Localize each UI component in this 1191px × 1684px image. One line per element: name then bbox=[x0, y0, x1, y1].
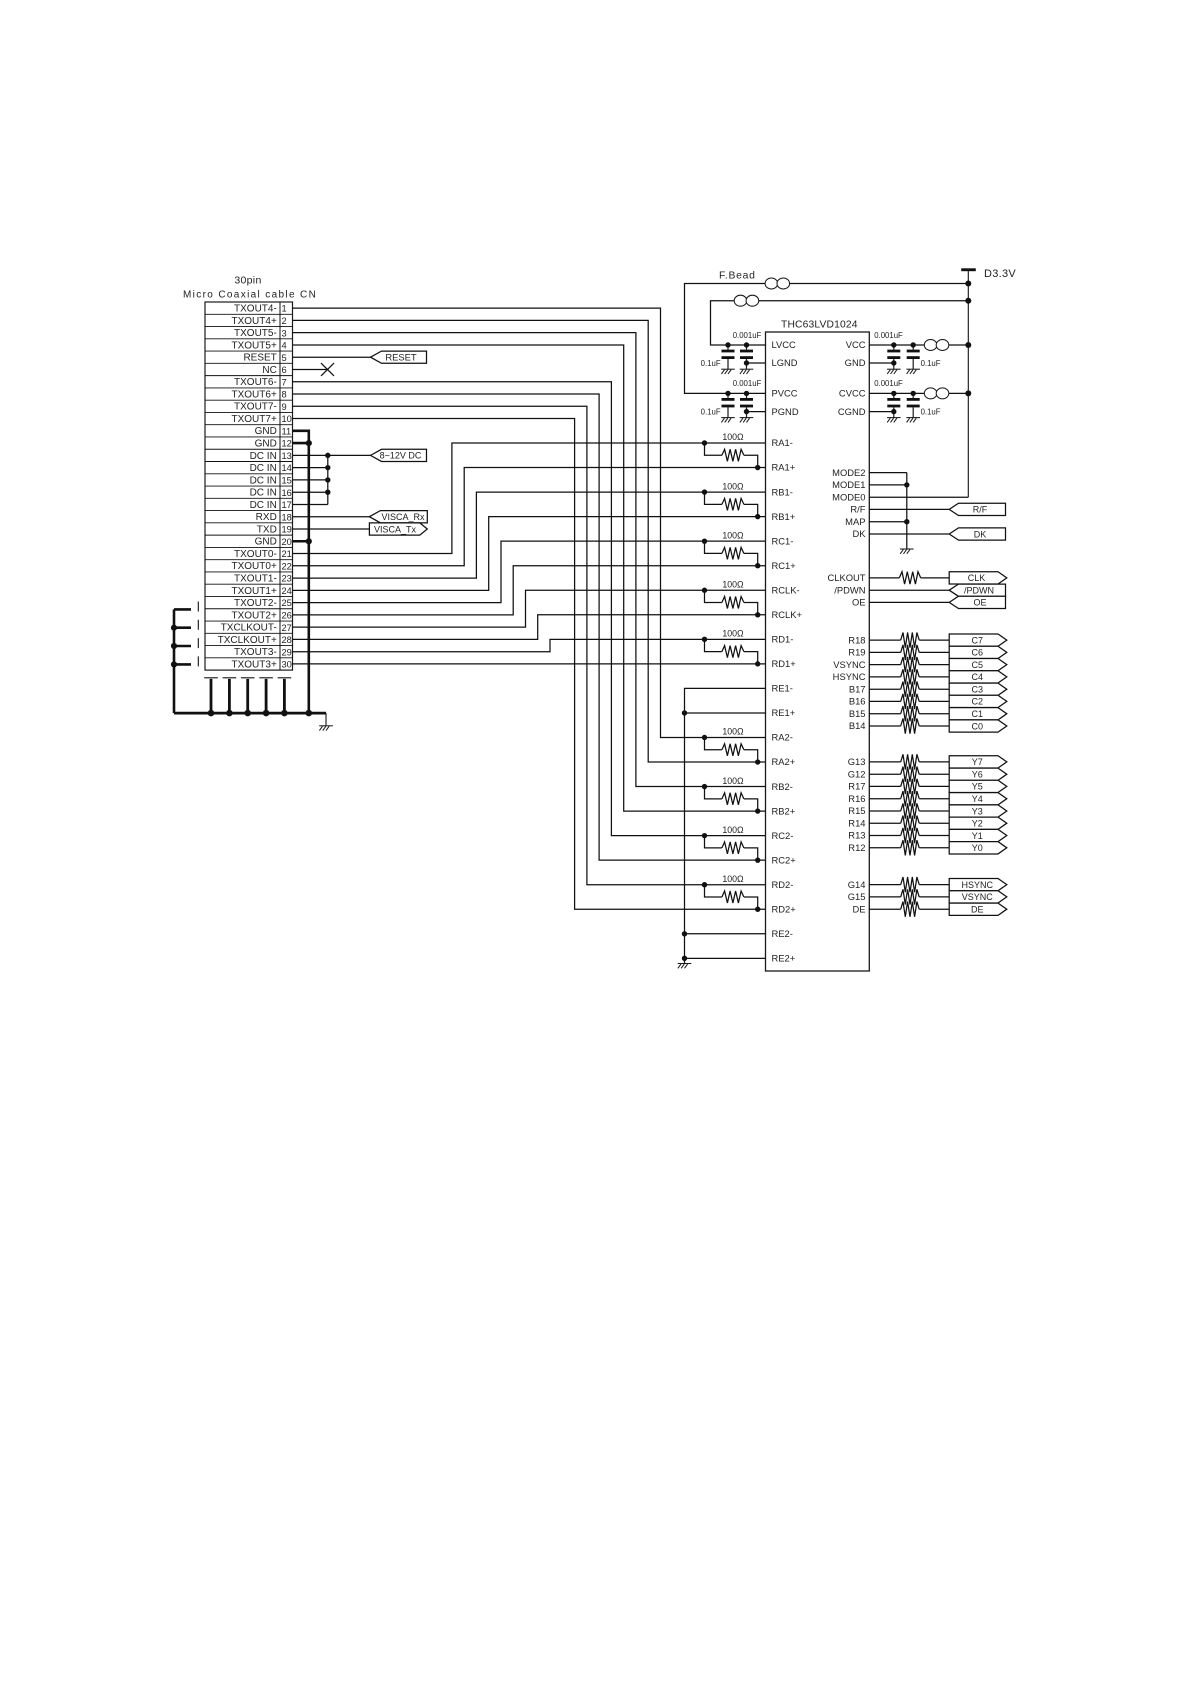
svg-text:C1: C1 bbox=[972, 709, 984, 719]
resistor 100ohm across RC1 pair bbox=[705, 541, 758, 566]
junction RA1+ bbox=[755, 465, 760, 470]
pin label G14 bbox=[848, 879, 866, 890]
junction shield stub bbox=[171, 643, 177, 649]
pin label VSYNC bbox=[833, 659, 866, 670]
wire R19 to resistor bbox=[869, 651, 900, 653]
svg-text:2: 2 bbox=[282, 316, 287, 326]
net flag 8~12V DC bbox=[371, 449, 427, 461]
net flag C4 bbox=[949, 671, 1007, 683]
inductor FB2 bbox=[734, 295, 759, 306]
svg-text:TXOUT5-: TXOUT5- bbox=[234, 328, 277, 339]
pin label MODE1 bbox=[832, 479, 865, 490]
svg-text:Y6: Y6 bbox=[972, 770, 983, 780]
resistor 100ohm across RD2 pair bbox=[705, 885, 758, 910]
svg-text:R12: R12 bbox=[848, 842, 865, 853]
junction RCLK+ bbox=[755, 612, 760, 617]
wire FB2 feed to LVCC bbox=[711, 301, 969, 345]
junction shield drain at bus bbox=[263, 710, 270, 717]
svg-text:15: 15 bbox=[282, 476, 292, 486]
wire shield drain under connector bbox=[223, 678, 237, 713]
svg-text:THC63LVD1024: THC63LVD1024 bbox=[781, 320, 858, 331]
svg-text:R16: R16 bbox=[848, 793, 865, 804]
svg-text:5: 5 bbox=[282, 353, 287, 363]
net flag /PDWN bbox=[949, 584, 1005, 596]
junction DC IN pin13 bbox=[325, 453, 330, 458]
net flag RESET bbox=[371, 351, 427, 363]
net flag VISCA_Rx bbox=[369, 511, 427, 523]
pin label RE2- bbox=[772, 928, 793, 939]
svg-text:TXOUT0-: TXOUT0- bbox=[234, 549, 277, 560]
pin label HSYNC bbox=[833, 671, 866, 682]
svg-text:CLKOUT: CLKOUT bbox=[827, 572, 865, 583]
svg-text:RD2-: RD2- bbox=[772, 879, 794, 890]
svg-text:R13: R13 bbox=[848, 830, 865, 841]
svg-text:G12: G12 bbox=[848, 768, 866, 779]
svg-text:8: 8 bbox=[282, 390, 287, 400]
pin label PVCC bbox=[772, 388, 798, 399]
resistor series R17 bbox=[901, 779, 920, 794]
wire CGND to cap bbox=[869, 411, 894, 413]
wire resistor to flag C7 bbox=[919, 639, 949, 641]
pin label R/F bbox=[850, 504, 865, 515]
svg-text:PVCC: PVCC bbox=[772, 388, 798, 399]
wire resistor to flag Y0 bbox=[919, 847, 949, 849]
net flag DE bbox=[949, 903, 1007, 915]
svg-text:8~12V DC: 8~12V DC bbox=[380, 451, 422, 461]
capacitor 0.1uF at LVCC bbox=[722, 345, 735, 369]
wire pin7 TXOUT6- to RC2- bbox=[293, 382, 766, 836]
label 100ohm RC1 bbox=[722, 530, 744, 540]
wire R14 to resistor bbox=[869, 822, 900, 824]
wire resistor to flag DE bbox=[919, 908, 949, 910]
wire resistor to CLK flag bbox=[921, 577, 950, 579]
svg-text:R14: R14 bbox=[848, 817, 865, 828]
svg-text:G15: G15 bbox=[848, 891, 866, 902]
resistor series R13 bbox=[901, 828, 920, 843]
junction RA2- bbox=[702, 735, 707, 740]
svg-text:TXOUT1-: TXOUT1- bbox=[234, 573, 277, 584]
wire resistor to flag Y3 bbox=[919, 810, 949, 812]
svg-text:GND: GND bbox=[255, 537, 277, 548]
svg-text:27: 27 bbox=[282, 623, 292, 633]
svg-text:TXOUT4+: TXOUT4+ bbox=[232, 316, 277, 327]
ground (0.1uF CVCC) bbox=[906, 418, 920, 423]
wire MODE2/MODE1/MAP to ground bbox=[869, 473, 907, 549]
svg-text:C4: C4 bbox=[972, 672, 984, 682]
wire CLKOUT through resistor bbox=[869, 577, 899, 579]
pin label LVCC bbox=[772, 339, 797, 350]
pin label R17 bbox=[848, 781, 865, 792]
pin label LGND bbox=[772, 357, 798, 368]
inductor FB1 (F.Bead) bbox=[765, 278, 789, 289]
label F.Bead bbox=[719, 271, 756, 282]
net flag Y3 bbox=[949, 805, 1007, 817]
junction MAP bbox=[904, 519, 909, 524]
power D3.3V bbox=[961, 268, 1016, 280]
svg-text:R19: R19 bbox=[848, 647, 865, 658]
pin label RB1+ bbox=[772, 511, 796, 522]
resistor series R16 bbox=[901, 791, 920, 806]
wire R18 to resistor bbox=[869, 639, 900, 641]
wire HSYNC to resistor bbox=[869, 676, 900, 678]
pin label RE1- bbox=[772, 683, 793, 694]
svg-text:22: 22 bbox=[282, 561, 292, 571]
wire pin9 TXOUT7- to RD2- bbox=[293, 406, 766, 884]
pin label RC2+ bbox=[772, 854, 797, 865]
resistor series R15 bbox=[901, 803, 920, 818]
resistor series B16 bbox=[901, 694, 920, 709]
svg-text:RB2+: RB2+ bbox=[772, 805, 796, 816]
svg-text:RA1+: RA1+ bbox=[772, 462, 796, 473]
svg-text:C2: C2 bbox=[972, 697, 984, 707]
svg-text:RB1+: RB1+ bbox=[772, 511, 796, 522]
svg-text:DC IN: DC IN bbox=[250, 488, 277, 499]
junction rail FB2 bbox=[965, 298, 971, 304]
junction RE net bbox=[682, 710, 687, 715]
junction MODE1 bbox=[904, 482, 909, 487]
pin label CLKOUT bbox=[827, 572, 865, 583]
pin label PGND bbox=[772, 406, 799, 417]
svg-text:R17: R17 bbox=[848, 781, 865, 792]
junction RD1- bbox=[702, 637, 707, 642]
net flag Y0 bbox=[949, 842, 1007, 854]
svg-text:VSYNC: VSYNC bbox=[833, 659, 866, 670]
pin label G15 bbox=[848, 891, 866, 902]
junction shield drain at bus bbox=[244, 710, 251, 717]
wire R17 to resistor bbox=[869, 785, 900, 787]
svg-text:Y2: Y2 bbox=[972, 819, 983, 829]
svg-text:CVCC: CVCC bbox=[839, 388, 866, 399]
svg-text:Y0: Y0 bbox=[972, 843, 983, 853]
wire resistor to flag C6 bbox=[919, 651, 949, 653]
net flag VSYNC bbox=[949, 891, 1007, 903]
svg-text:DK: DK bbox=[974, 529, 987, 539]
resistor series G14 bbox=[901, 877, 920, 892]
pin label RE2+ bbox=[772, 953, 796, 964]
no-connect cross pin6 bbox=[321, 363, 334, 376]
pin label RD1- bbox=[772, 634, 794, 645]
svg-text:13: 13 bbox=[282, 451, 292, 461]
junction GND pin12 bbox=[306, 440, 312, 446]
wire resistor to flag Y5 bbox=[919, 785, 949, 787]
ground (0.1uF PVCC) bbox=[721, 418, 735, 423]
wire G15 to resistor bbox=[869, 896, 900, 898]
svg-text:GND: GND bbox=[845, 357, 866, 368]
svg-text:TXOUT3-: TXOUT3- bbox=[234, 647, 277, 658]
wire R/F bbox=[869, 508, 949, 510]
svg-text:RESET: RESET bbox=[243, 353, 276, 364]
svg-text:Y3: Y3 bbox=[972, 806, 983, 816]
capacitor 0.001uF at PVCC bbox=[740, 393, 753, 417]
svg-text:MAP: MAP bbox=[845, 516, 865, 527]
pin label GND bbox=[845, 357, 866, 368]
connector CN1 30pin Micro Coaxial cable bbox=[205, 302, 293, 670]
svg-text:Y7: Y7 bbox=[972, 757, 983, 767]
wire R15 to resistor bbox=[869, 810, 900, 812]
wire DK bbox=[869, 533, 949, 535]
svg-text:16: 16 bbox=[282, 488, 292, 498]
svg-text:Y4: Y4 bbox=[972, 794, 983, 804]
label 100ohm RC2 bbox=[722, 825, 744, 835]
net flag C5 bbox=[949, 658, 1007, 670]
pin label MODE2 bbox=[832, 467, 865, 478]
svg-text:12: 12 bbox=[282, 439, 292, 449]
wire pin6 NC bbox=[293, 368, 328, 370]
capacitor 0.1uF at CVCC bbox=[907, 393, 920, 417]
pin label RE1+ bbox=[772, 707, 796, 718]
svg-text:RE1+: RE1+ bbox=[772, 707, 796, 718]
wire resistor to flag C0 bbox=[919, 725, 949, 727]
junction rail FB1 bbox=[965, 281, 971, 287]
junction RA2+ bbox=[755, 759, 760, 764]
wire pin19 TXD bbox=[293, 528, 370, 530]
wire ground bus below connector bbox=[174, 712, 326, 715]
junction shield drain at bus bbox=[226, 710, 233, 717]
svg-text:28: 28 bbox=[282, 635, 292, 645]
pin label R18 bbox=[848, 634, 865, 645]
ground (connector shield bus) bbox=[319, 726, 333, 731]
net flag CLK bbox=[949, 572, 1007, 584]
svg-text:RB1-: RB1- bbox=[772, 486, 793, 497]
svg-text:3: 3 bbox=[282, 328, 287, 338]
svg-text:DC IN: DC IN bbox=[250, 475, 277, 486]
ground (0.1uF LVCC) bbox=[721, 369, 735, 374]
svg-text:RD2+: RD2+ bbox=[772, 903, 797, 914]
svg-text:RA2+: RA2+ bbox=[772, 756, 796, 767]
junction shield drain at bus bbox=[208, 710, 215, 717]
svg-text:0.001uF: 0.001uF bbox=[874, 331, 903, 340]
svg-text:RD1+: RD1+ bbox=[772, 658, 797, 669]
svg-text:MODE1: MODE1 bbox=[832, 479, 865, 490]
wire R12 to resistor bbox=[869, 847, 900, 849]
wire pin10 TXOUT7+ to RD2+ bbox=[293, 419, 766, 910]
svg-text:DE: DE bbox=[971, 905, 984, 915]
wire GND net pins 11,12,20 thick bus bbox=[293, 431, 309, 713]
resistor series G12 bbox=[901, 767, 920, 782]
ground (0.001uF VCC) bbox=[887, 369, 901, 374]
label 0.1uF VCC bbox=[921, 359, 941, 368]
svg-text:26: 26 bbox=[282, 610, 292, 620]
net flag VISCA_Tx bbox=[369, 523, 427, 535]
label 0.001uF VCC bbox=[874, 331, 903, 340]
svg-text:RB2-: RB2- bbox=[772, 781, 793, 792]
junction RCLK- bbox=[702, 588, 707, 593]
svg-text:B14: B14 bbox=[849, 720, 866, 731]
svg-text:TXD: TXD bbox=[257, 524, 277, 535]
svg-text:/PDWN: /PDWN bbox=[964, 586, 994, 596]
label 100ohm RD2 bbox=[722, 874, 744, 884]
svg-text:TXOUT7-: TXOUT7- bbox=[234, 402, 277, 413]
svg-text:19: 19 bbox=[282, 525, 292, 535]
svg-text:D3.3V: D3.3V bbox=[984, 268, 1016, 280]
svg-text:C6: C6 bbox=[972, 648, 984, 658]
label 100ohm RB1 bbox=[722, 481, 744, 491]
resistor series G13 bbox=[901, 754, 920, 769]
wire shield drain under connector bbox=[278, 678, 292, 713]
svg-text:LVCC: LVCC bbox=[772, 339, 797, 350]
resistor series VSYNC bbox=[901, 657, 920, 672]
svg-text:24: 24 bbox=[282, 586, 292, 596]
pin label G13 bbox=[848, 756, 866, 767]
resistor series CLK bbox=[899, 572, 920, 584]
svg-text:GND: GND bbox=[255, 426, 277, 437]
svg-text:TXOUT3+: TXOUT3+ bbox=[232, 659, 277, 670]
junction RE net bbox=[682, 956, 687, 961]
svg-text:VCC: VCC bbox=[846, 339, 866, 350]
wire CVCC to rail bbox=[869, 392, 968, 394]
svg-text:MODE0: MODE0 bbox=[832, 491, 865, 502]
svg-text:100Ω: 100Ω bbox=[722, 776, 744, 786]
wire resistor to flag C3 bbox=[919, 688, 949, 690]
wire pin3 TXOUT5- to RB2- bbox=[293, 333, 766, 787]
svg-text:100Ω: 100Ω bbox=[722, 825, 744, 835]
svg-text:TXCLKOUT+: TXCLKOUT+ bbox=[218, 635, 277, 646]
svg-text:B16: B16 bbox=[849, 696, 866, 707]
pin label CVCC bbox=[839, 388, 866, 399]
junction GND tee bbox=[891, 360, 896, 365]
wire resistor to flag Y2 bbox=[919, 822, 949, 824]
svg-text:TXOUT2-: TXOUT2- bbox=[234, 598, 277, 609]
capacitor 0.001uF at LVCC bbox=[740, 345, 753, 369]
capacitor 0.1uF at PVCC bbox=[722, 393, 735, 417]
junction shield stub bbox=[171, 625, 177, 631]
pin label MAP bbox=[845, 516, 865, 527]
net flag R/F bbox=[949, 503, 1005, 515]
svg-text:25: 25 bbox=[282, 598, 292, 608]
svg-text:B17: B17 bbox=[849, 683, 866, 694]
junction RC2+ bbox=[755, 857, 760, 862]
svg-text:C3: C3 bbox=[972, 685, 984, 695]
wire LGND to cap bbox=[747, 362, 766, 364]
svg-text:6: 6 bbox=[282, 365, 287, 375]
net flag HSYNC bbox=[949, 878, 1007, 890]
pin label RD2+ bbox=[772, 903, 797, 914]
svg-text:0.1uF: 0.1uF bbox=[921, 408, 941, 417]
ground (0.1uF VCC) bbox=[906, 369, 920, 374]
wire DC IN pins 13-17 bbox=[293, 455, 371, 504]
junction LGND tee bbox=[744, 360, 749, 365]
junction DC IN pin15 bbox=[325, 477, 330, 482]
wire pin8 TXOUT6+ to RC2+ bbox=[293, 394, 766, 860]
wire pin26 TXOUT2+ to RC1+ bbox=[293, 566, 766, 615]
svg-text:100Ω: 100Ω bbox=[722, 874, 744, 884]
junction RB1- bbox=[702, 489, 707, 494]
wire resistor to flag C4 bbox=[919, 676, 949, 678]
svg-text:1: 1 bbox=[282, 304, 287, 314]
wire G13 to resistor bbox=[869, 761, 900, 763]
wire resistor to flag C1 bbox=[919, 713, 949, 715]
svg-text:MODE2: MODE2 bbox=[832, 467, 865, 478]
capacitor 0.001uF at VCC bbox=[887, 345, 900, 369]
wire pin25 TXOUT2- to RC1- bbox=[293, 541, 766, 602]
svg-text:100Ω: 100Ω bbox=[722, 629, 744, 639]
junction RB1+ bbox=[755, 514, 760, 519]
pin label RD2- bbox=[772, 879, 794, 890]
junction RD1+ bbox=[755, 661, 760, 666]
svg-text:RC1-: RC1- bbox=[772, 535, 794, 546]
svg-text:HSYNC: HSYNC bbox=[833, 671, 866, 682]
wire resistor to flag C2 bbox=[919, 700, 949, 702]
pin label R14 bbox=[848, 817, 865, 828]
svg-text:11: 11 bbox=[282, 426, 292, 436]
pin label RC1- bbox=[772, 535, 794, 546]
label 0.001uF LVCC bbox=[733, 331, 762, 340]
svg-text:100Ω: 100Ω bbox=[722, 530, 744, 540]
wire pin4 TXOUT5+ to RB2+ bbox=[293, 345, 766, 811]
net flag C7 bbox=[949, 634, 1007, 646]
svg-text:TXOUT1+: TXOUT1+ bbox=[232, 586, 277, 597]
svg-text:RC1+: RC1+ bbox=[772, 560, 797, 571]
wire F.Bead feed to PVCC bbox=[685, 284, 969, 394]
label 100ohm RD1 bbox=[722, 629, 744, 639]
junction RB2- bbox=[702, 784, 707, 789]
connector title 30pin bbox=[234, 275, 261, 287]
svg-text:0.1uF: 0.1uF bbox=[701, 408, 721, 417]
svg-text:/PDWN: /PDWN bbox=[834, 584, 865, 595]
svg-text:C5: C5 bbox=[972, 660, 984, 670]
svg-text:14: 14 bbox=[282, 463, 292, 473]
junction CGND tee bbox=[891, 409, 896, 414]
svg-text:TXOUT0+: TXOUT0+ bbox=[232, 561, 277, 572]
pin label RD1+ bbox=[772, 658, 797, 669]
pin label RB2+ bbox=[772, 805, 796, 816]
svg-text:LGND: LGND bbox=[772, 357, 798, 368]
svg-text:0.1uF: 0.1uF bbox=[701, 359, 721, 368]
svg-text:Y1: Y1 bbox=[972, 831, 983, 841]
pin label RA1+ bbox=[772, 462, 796, 473]
svg-text:RE2-: RE2- bbox=[772, 928, 793, 939]
svg-text:100Ω: 100Ω bbox=[722, 727, 744, 737]
net flag OE bbox=[949, 596, 1005, 608]
resistor series G15 bbox=[901, 889, 920, 904]
wire D3.3V rail vertical bbox=[967, 271, 969, 497]
svg-text:VSYNC: VSYNC bbox=[962, 892, 994, 902]
junction VCC caps bbox=[891, 342, 916, 347]
wire G12 to resistor bbox=[869, 773, 900, 775]
pin label OE bbox=[852, 597, 866, 608]
svg-text:DC IN: DC IN bbox=[250, 500, 277, 511]
junction shield drain at bus bbox=[281, 710, 288, 717]
svg-text:DC IN: DC IN bbox=[250, 451, 277, 462]
ground (0.001uF CVCC) bbox=[887, 418, 901, 423]
pin label B17 bbox=[849, 683, 866, 694]
svg-text:20: 20 bbox=[282, 537, 292, 547]
svg-text:RC2-: RC2- bbox=[772, 830, 794, 841]
svg-text:RXD: RXD bbox=[256, 512, 277, 523]
resistor series R19 bbox=[901, 645, 920, 660]
wire pin23 TXOUT1- to RB1- bbox=[293, 492, 766, 578]
label 100ohm RCLK bbox=[722, 579, 744, 589]
net flag Y5 bbox=[949, 780, 1007, 792]
svg-text:TXOUT4-: TXOUT4- bbox=[234, 304, 277, 315]
wire resistor to flag HSYNC bbox=[919, 884, 949, 886]
wire pin2 TXOUT4+ to RA2+ bbox=[293, 320, 766, 762]
svg-text:F.Bead: F.Bead bbox=[719, 271, 756, 282]
net flag Y2 bbox=[949, 817, 1007, 829]
net flag C6 bbox=[949, 646, 1007, 658]
wire pin18 RXD bbox=[293, 516, 370, 518]
svg-text:RA1-: RA1- bbox=[772, 437, 793, 448]
wire shield drain under connector bbox=[204, 678, 218, 713]
pin label DK bbox=[852, 528, 866, 539]
label 0.1uF CVCC bbox=[921, 408, 941, 417]
pin label RCLK- bbox=[772, 584, 800, 595]
label 0.001uF CVCC bbox=[874, 379, 903, 388]
connector title Micro Coaxial cable CN bbox=[183, 290, 317, 301]
svg-text:4: 4 bbox=[282, 341, 287, 351]
junction rail CVCC bbox=[965, 390, 971, 396]
resistor 100ohm across RD1 pair bbox=[705, 639, 758, 664]
